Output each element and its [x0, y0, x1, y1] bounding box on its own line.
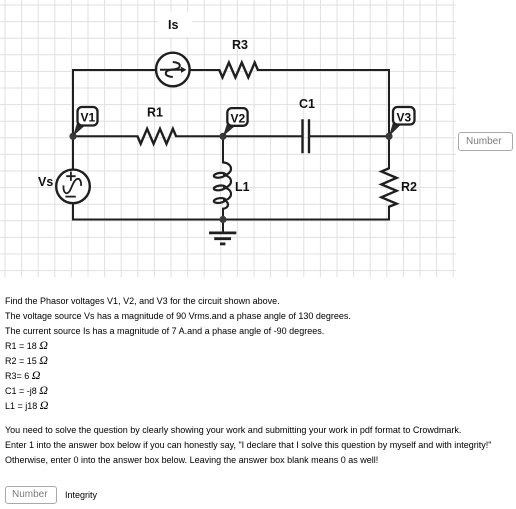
svg-text:R2: R2 [401, 180, 417, 194]
svg-text:R3: R3 [232, 38, 248, 52]
svg-text:Is: Is [168, 18, 178, 32]
svg-text:R1: R1 [147, 106, 163, 120]
svg-text:Vs: Vs [38, 175, 53, 189]
svg-text:V1: V1 [81, 111, 96, 125]
svg-text:V3: V3 [397, 111, 412, 125]
svg-text:V2: V2 [231, 112, 246, 126]
svg-text:C1: C1 [299, 97, 315, 111]
svg-text:L1: L1 [235, 180, 250, 194]
